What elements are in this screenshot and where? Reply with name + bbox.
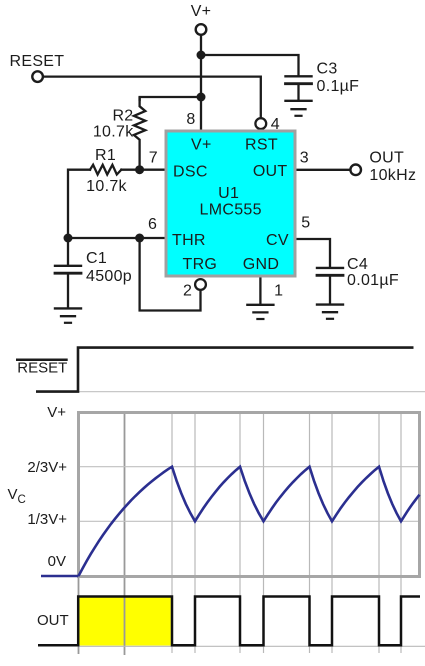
svg-text:10kHz: 10kHz [369, 167, 416, 184]
svg-text:0V: 0V [48, 553, 66, 570]
gridline major at first half period [124, 411, 126, 655]
node junction THR/TRG [135, 234, 144, 243]
svg-text:TRG: TRG [183, 256, 218, 273]
svg-text:V+: V+ [191, 3, 212, 20]
capacitor C1 [55, 238, 81, 307]
gridline at t0 (below plot) [78, 577, 80, 654]
svg-text:8: 8 [186, 111, 195, 128]
RESET waveform trace [36, 348, 414, 392]
svg-text:0.01µF: 0.01µF [347, 272, 399, 289]
wire V+ junction to C3 [201, 55, 299, 76]
wire TRG route to pin 2 [140, 238, 201, 311]
gridline 1/3V+ level [80, 520, 418, 522]
svg-text:C4: C4 [347, 256, 368, 273]
node RESET input terminal [32, 71, 43, 82]
RESET waveform baseline (gray) [79, 391, 425, 393]
svg-text:OUT: OUT [37, 612, 69, 629]
wire RESET to pin 4 [43, 77, 261, 118]
svg-text:DSC: DSC [173, 164, 208, 181]
wire R1 left + vertical to C1 node [68, 170, 90, 238]
svg-text:R2: R2 [112, 107, 133, 124]
wire GND pin 1 [259, 278, 261, 304]
svg-text:C1: C1 [86, 250, 107, 267]
gridline 2/3V+ level [80, 466, 418, 468]
svg-text:7: 7 [149, 150, 158, 167]
svg-text:U1: U1 [218, 185, 239, 202]
OUT waveform baseline gray [79, 645, 425, 647]
svg-text:RST: RST [245, 137, 278, 154]
svg-text:2/3V+: 2/3V+ [27, 459, 67, 476]
svg-text:1/3V+: 1/3V+ [27, 511, 67, 528]
plot frame Vc [79, 413, 420, 577]
node junction V+/C3 [197, 51, 206, 60]
svg-text:3: 3 [300, 150, 309, 167]
ground (pin 1 GND) [247, 305, 273, 319]
resistor R1 [90, 165, 121, 175]
OUT waveform trace [38, 597, 420, 646]
svg-text:LMC555: LMC555 [200, 202, 262, 219]
svg-text:C3: C3 [317, 60, 338, 77]
svg-text:RESET: RESET [17, 360, 67, 377]
wire V+ vertical down to pin 8 [200, 35, 202, 130]
svg-text:THR: THR [172, 232, 206, 249]
node OUT terminal [350, 165, 361, 176]
svg-text:6: 6 [148, 216, 157, 233]
ground (C1) [55, 308, 81, 322]
resistor R2 [134, 98, 145, 170]
op-amp U1 LMC555 timer body [166, 131, 295, 276]
gridlines vertical (timing) [172, 413, 401, 653]
svg-text:5: 5 [301, 215, 310, 232]
OUT waveform highlighted first period [79, 598, 171, 646]
wire CV pin 5 to C4 [297, 239, 331, 267]
ground (C4) [317, 305, 343, 319]
capacitor C4 [317, 268, 343, 303]
node junction V+/R2 [197, 93, 206, 102]
svg-text:R1: R1 [95, 147, 116, 164]
svg-text:1: 1 [274, 282, 283, 299]
svg-text:2: 2 [183, 282, 192, 299]
capacitor voltage waveform Vc [41, 575, 79, 578]
wire OUT pin 3 [297, 169, 351, 171]
capacitor C3 [286, 76, 312, 100]
svg-text:RESET: RESET [10, 53, 65, 70]
svg-text:10.7k: 10.7k [93, 124, 134, 141]
node junction C1/THR [64, 234, 73, 243]
axis label V+ [8, 404, 69, 629]
svg-text:4500p: 4500p [86, 268, 132, 285]
svg-text:V+: V+ [191, 137, 212, 154]
label RESET (overline) [17, 360, 67, 377]
svg-text:GND: GND [243, 256, 279, 273]
svg-text:V+: V+ [47, 404, 66, 421]
svg-text:OUT: OUT [369, 150, 404, 167]
pin 4 bubble [255, 118, 266, 129]
svg-text:OUT: OUT [253, 163, 288, 180]
wire THR line pin 6 [68, 237, 165, 239]
svg-text:CV: CV [266, 232, 289, 249]
wire R2 top from V+ junction [140, 97, 201, 100]
svg-text:0.1µF: 0.1µF [317, 78, 360, 95]
node V+ supply terminal [196, 24, 207, 35]
svg-text:10.7k: 10.7k [86, 178, 127, 195]
node junction R1/R2/pin7 [135, 165, 144, 174]
pin 2 bubble [195, 279, 206, 290]
svg-text:4: 4 [271, 116, 280, 133]
wire R1 to pin 7 [121, 169, 164, 171]
ground (C3) [286, 101, 312, 116]
